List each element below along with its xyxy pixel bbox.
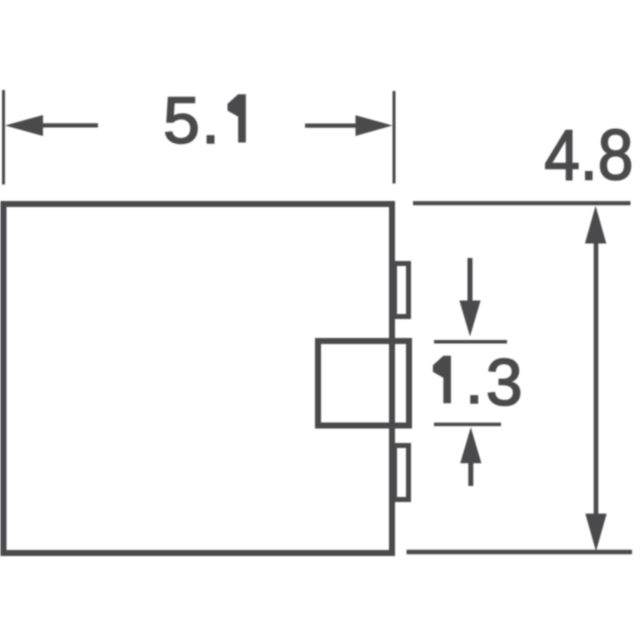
- arrowhead left (5.1): [5, 115, 43, 136]
- svg-text:5: 5: [163, 83, 200, 157]
- pin 1 (top side terminal): [395, 264, 409, 317]
- dim text 5.1 : digit 1 (custom glyph): [228, 94, 246, 142]
- arrowhead up (4.8 top): [585, 206, 606, 244]
- extension line left (5.1 dim): [2, 90, 5, 185]
- arrow stem down (1.3 dim upper): [468, 258, 473, 305]
- arrowhead down (4.8 bottom): [585, 514, 606, 552]
- arrowhead down (1.3 upper): [459, 301, 480, 337]
- extension line top (1.3 dim): [434, 340, 507, 344]
- rotor tab (middle square): [318, 341, 409, 426]
- svg-text:3: 3: [486, 345, 523, 419]
- dimension line 5.1 left segment: [40, 123, 98, 127]
- extension line right (5.1 dim): [393, 91, 396, 184]
- dimension line 4.8 vertical: [594, 240, 599, 517]
- dimension line 5.1 right segment: [305, 123, 357, 127]
- extension line top (4.8 dim): [413, 201, 631, 205]
- extension line bottom (4.8 dim): [407, 550, 633, 555]
- pin 2 (bottom side terminal): [395, 446, 409, 500]
- arrowhead up (1.3 lower): [460, 427, 481, 463]
- arrow stem up (1.3 dim lower): [468, 462, 473, 486]
- svg-text:.: .: [465, 343, 483, 417]
- component body outline: [4, 204, 393, 553]
- svg-text:4.8: 4.8: [544, 117, 633, 196]
- dim text 1.3 : digit 1 (custom glyph): [433, 356, 451, 404]
- svg-text:.: .: [201, 83, 219, 157]
- extension line bottom (1.3 dim): [434, 423, 501, 427]
- arrowhead right (5.1): [356, 115, 393, 136]
